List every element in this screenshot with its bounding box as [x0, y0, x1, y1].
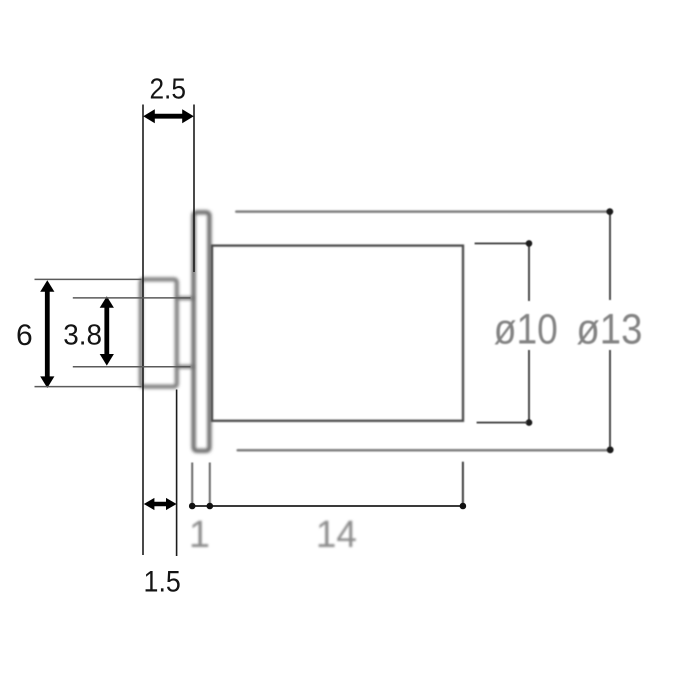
dia10 dimension line upper — [528, 246, 530, 302]
svg-text:6: 6 — [16, 319, 33, 352]
svg-text:1: 1 — [189, 514, 210, 556]
svg-text:3.8: 3.8 — [63, 319, 102, 351]
svg-text:2.5: 2.5 — [149, 74, 186, 106]
dimension arrow 3.8 — [100, 296, 114, 365]
dimension arrow 2.5 — [143, 109, 194, 123]
ext line below plate right — [209, 463, 211, 506]
dimension arrow 1.5 — [144, 498, 177, 510]
svg-text:ø10: ø10 — [494, 305, 558, 353]
ext line below body right — [462, 462, 464, 505]
svg-text:14: 14 — [316, 514, 357, 556]
dia13 bottom extension line — [238, 449, 607, 452]
ext line 3.8 top — [73, 297, 191, 299]
bottom dot middle — [207, 503, 214, 510]
dia10 top dot — [526, 240, 533, 247]
ext line 3.8 bottom — [73, 366, 191, 368]
dia10 bottom dot — [526, 419, 533, 426]
flange plate — [194, 212, 210, 450]
neck stub bottom — [177, 365, 194, 369]
bottom dimension line (1 and 14) — [192, 505, 463, 507]
dia10 dimension line lower — [528, 350, 530, 421]
ext line 6 bottom — [35, 386, 142, 388]
dia13 bottom dot — [607, 446, 614, 453]
dia10 bottom connector — [477, 422, 527, 424]
bottom dot left — [189, 503, 196, 510]
svg-text:1.5: 1.5 — [144, 566, 181, 599]
dia13 dimension line lower — [609, 350, 611, 447]
body cylinder — [212, 246, 463, 421]
ext line left of knob (2.5 left / 1.5 left) — [142, 105, 144, 556]
knob (part outline, blurred) — [141, 279, 177, 386]
svg-text:ø13: ø13 — [576, 305, 642, 353]
bottom dot right — [460, 503, 467, 510]
ext line below plate left — [191, 463, 193, 506]
dia13 top extension line — [236, 210, 607, 213]
dimension arrow 6 — [40, 280, 54, 388]
dia13 top dot — [606, 208, 613, 215]
ext line knob right face (1.5 right) — [176, 390, 178, 557]
dia13 dimension line upper — [609, 214, 611, 300]
neck stub top — [177, 296, 194, 300]
ext line plate left face (2.5 right) — [193, 105, 195, 273]
ext line 6 top — [35, 278, 142, 280]
dia10 top connector — [475, 242, 527, 244]
